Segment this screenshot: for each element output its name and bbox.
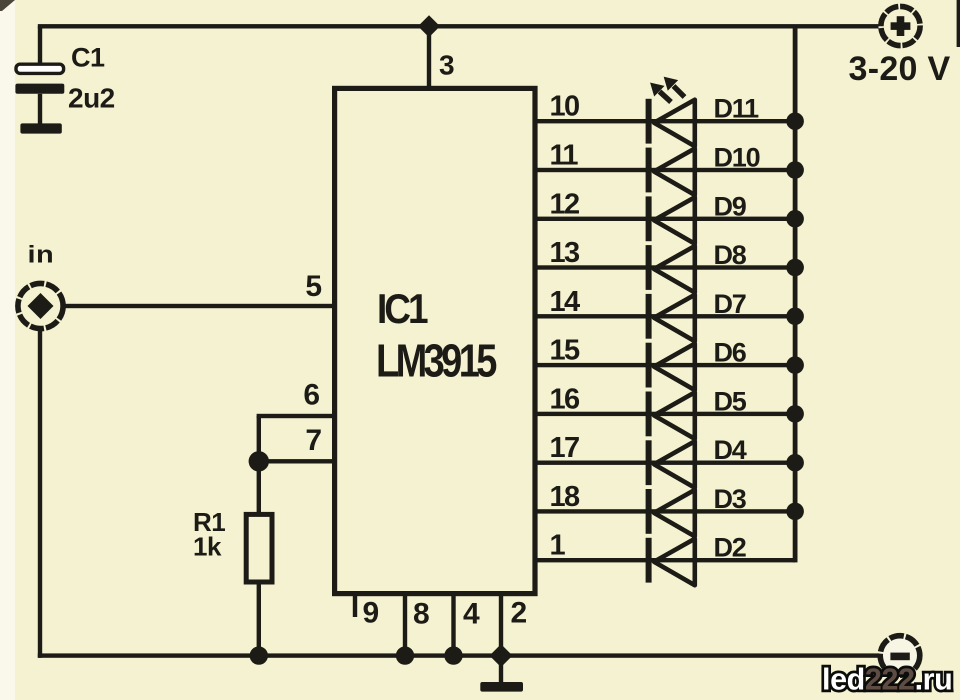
svg-text:5: 5 <box>305 270 322 303</box>
LED D8 <box>646 245 695 292</box>
wire pin 6 <box>257 414 335 418</box>
svg-text:1: 1 <box>550 530 566 562</box>
terminal + (supply) <box>881 6 920 45</box>
svg-text:11: 11 <box>550 140 579 172</box>
LED D6 <box>646 343 695 390</box>
svg-text:D9: D9 <box>714 191 747 221</box>
junction node D4-bus <box>786 454 804 472</box>
wire R1 to bottom rail <box>257 582 261 656</box>
svg-text:D3: D3 <box>714 484 747 514</box>
junction node D5-bus <box>786 405 804 423</box>
wire pin 14 to LED D7 and bus <box>535 314 795 318</box>
wire pin 1 to LED D2 and bus <box>535 558 795 562</box>
svg-text:led222.ru: led222.ru <box>822 663 952 697</box>
wire pin 12 to LED D9 and bus <box>535 217 795 221</box>
LED D4 <box>646 440 695 487</box>
wire pin 11 to LED D10 and bus <box>535 168 795 172</box>
wire pin 8 <box>403 593 407 656</box>
svg-text:in: in <box>28 241 55 268</box>
capacitor C1 minus plate <box>15 84 64 94</box>
junction node D11-bus <box>786 112 804 130</box>
wire pin 4 <box>451 593 455 656</box>
wire bottom ground rail <box>38 653 879 657</box>
svg-text:D10: D10 <box>714 143 760 173</box>
junction node pins 6-7 <box>249 451 269 471</box>
wire junction to R1 <box>257 461 261 514</box>
scan smudge top-left corner <box>0 0 15 11</box>
svg-text:10: 10 <box>550 91 580 123</box>
svg-text:14: 14 <box>550 286 581 318</box>
svg-text:D7: D7 <box>714 289 746 319</box>
wire LED anode bus <box>793 26 798 562</box>
svg-text:IC1: IC1 <box>377 286 428 333</box>
LED D3 <box>646 489 695 536</box>
wire pin 13 to LED D8 and bus <box>535 265 795 269</box>
ground bar <box>480 682 523 692</box>
junction node D8-bus <box>786 259 804 277</box>
svg-text:9: 9 <box>363 597 380 630</box>
wire from top-left corner down to C1 <box>38 26 42 66</box>
svg-text:4: 4 <box>463 598 480 631</box>
svg-text:3-20 V: 3-20 V <box>849 50 951 88</box>
wire pin 17 to LED D4 and bus <box>535 461 795 465</box>
svg-text:D2: D2 <box>714 533 746 563</box>
wire pin 18 to LED D3 and bus <box>535 509 795 513</box>
LED D5 <box>646 392 695 439</box>
svg-text:16: 16 <box>550 383 581 415</box>
wire pin 16 to LED D5 and bus <box>535 412 795 416</box>
LED D9 <box>646 196 695 243</box>
junction node D9-bus <box>786 210 804 228</box>
svg-text:6: 6 <box>303 379 320 412</box>
junction node pin2-rail <box>490 644 513 667</box>
wire pin 3 <box>427 26 431 88</box>
scan sliver right edge <box>957 0 960 47</box>
junction node D7-bus <box>786 308 804 326</box>
junction node pin4-rail <box>444 646 462 664</box>
wire pin 10 to LED D11 and bus <box>535 119 795 123</box>
capacitor C1 plus plate <box>16 64 64 73</box>
svg-text:15: 15 <box>550 335 581 367</box>
svg-text:1k: 1k <box>193 532 222 562</box>
svg-text:2: 2 <box>511 597 528 630</box>
svg-text:D6: D6 <box>714 338 747 368</box>
svg-text:D11: D11 <box>714 94 760 124</box>
LED D11 <box>646 99 695 146</box>
ground bar below C1 <box>20 123 61 133</box>
wire pin 7 <box>257 459 335 463</box>
junction node D6-bus <box>786 356 804 374</box>
terminal in <box>18 283 63 328</box>
svg-text:12: 12 <box>550 188 580 220</box>
svg-text:D8: D8 <box>714 240 747 270</box>
LED D2 <box>646 538 695 585</box>
wire top +V rail <box>38 24 879 28</box>
svg-text:18: 18 <box>550 481 581 513</box>
wire pin 15 to LED D6 and bus <box>535 363 795 367</box>
svg-text:C1: C1 <box>71 43 105 73</box>
svg-text:D5: D5 <box>714 386 747 416</box>
junction node D10-bus <box>786 161 804 179</box>
pin 9 stub <box>353 593 357 617</box>
wire pin 2 to ground <box>499 593 503 683</box>
svg-text:7: 7 <box>305 424 322 457</box>
svg-text:3: 3 <box>439 50 455 81</box>
LED D7 <box>646 294 695 341</box>
terminal - (supply return) <box>880 636 920 676</box>
junction node R1-rail <box>250 646 268 664</box>
LED emission arrows <box>651 77 685 102</box>
wire C1 to ground <box>38 94 42 124</box>
wire in terminal down to bottom rail <box>38 329 42 658</box>
svg-text:D4: D4 <box>714 435 747 465</box>
svg-text:LM3915: LM3915 <box>376 335 497 386</box>
resistor R1 <box>246 514 272 582</box>
junction node top rail to pin 3 <box>418 15 440 37</box>
svg-text:2u2: 2u2 <box>68 83 115 114</box>
junction node D3-bus <box>786 503 804 521</box>
svg-text:13: 13 <box>550 237 581 269</box>
junction node pin8-rail <box>396 646 414 664</box>
svg-text:8: 8 <box>413 598 430 631</box>
op-amp IC1 LM3915 body <box>335 88 535 593</box>
wire pin 5 input <box>63 304 335 308</box>
svg-text:17: 17 <box>550 432 580 464</box>
LED D10 <box>646 148 695 195</box>
